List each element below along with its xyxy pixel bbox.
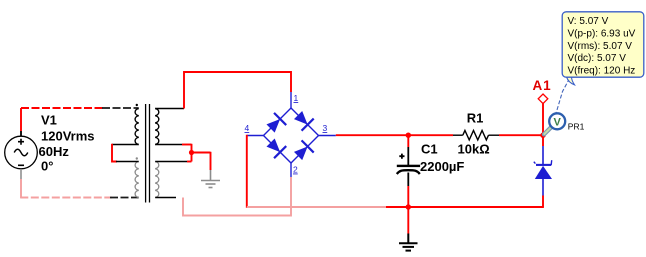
svg-text:V: V (554, 116, 562, 128)
source V1 minus sign (18, 164, 24, 166)
wire zener bottom red (542, 196, 544, 208)
wire V1 top horizontal dashed black to transformer (102, 107, 139, 109)
diode D1 (pin4 to pin1, top-left) (265, 113, 287, 135)
wire center tap vertical (191, 144, 193, 162)
probe PR1 circle (549, 113, 565, 129)
wire bridge pin 4 down (246, 135, 248, 208)
wire V1 bottom vertical pink (20, 179, 22, 198)
svg-text:0°: 0° (41, 159, 53, 174)
node A1 junction (540, 133, 545, 138)
junction C1 bottom (406, 204, 411, 209)
probe diamond A1 (538, 94, 548, 104)
svg-text:C1: C1 (421, 142, 438, 157)
capacitor C1 lead top red (407, 135, 409, 147)
wire secondary top: up, across, down to bridge pin 1 (184, 72, 291, 109)
wire node A1 down red (542, 135, 544, 146)
svg-text:60Hz: 60Hz (39, 144, 70, 159)
callout box tail (567, 77, 575, 85)
transformer T2 polarity dot (136, 157, 138, 159)
transformer T1 pin upper-left-bottom (112, 144, 139, 146)
svg-text:1: 1 (294, 93, 299, 103)
transformer T1 secondary winding (upper right coil) (155, 109, 159, 145)
bridge rectifier: pin 3 stub (319, 135, 336, 137)
transformer T2 pin lower-left-top (116, 161, 139, 163)
capacitor C1 plus sign (399, 154, 404, 159)
transformer T2 pin lower-right-top (155, 161, 187, 163)
transformer T2 secondary winding (lower right coil) (155, 162, 159, 198)
wire V1 bottom horizontal dashed pink (20, 197, 112, 199)
transformer T2 primary winding (lower left coil) (135, 162, 139, 198)
wire R1 to node A1 red (499, 134, 543, 136)
wire V1 top vertical (20, 108, 22, 131)
ground (center tap, gray) (201, 170, 220, 188)
source V1 sine wave (14, 149, 28, 156)
wire V1 top horizontal dashed red (21, 107, 104, 109)
svg-text:V(freq): 120 Hz: V(freq): 120 Hz (568, 66, 636, 77)
transformer T1 pin upper-right-bottom (155, 144, 182, 146)
source V1 pin stub bottom gray (20, 169, 22, 179)
capacitor C1 top plate (397, 165, 420, 167)
svg-text:V: 5.07 V: V: 5.07 V (568, 16, 609, 27)
source V1 pin stub top (20, 131, 22, 137)
svg-text:V(rms): 5.07 V: V(rms): 5.07 V (568, 41, 633, 52)
svg-text:2: 2 (293, 165, 298, 175)
svg-text:4: 4 (245, 123, 250, 133)
transformer T2 pin lower-right-bottom (155, 197, 176, 199)
wire center tap lower red (187, 161, 192, 163)
svg-text:R1: R1 (467, 111, 484, 126)
wire bottom rail red segment (386, 206, 544, 208)
wire center tap ground vertical (210, 152, 212, 170)
wire center tap upper red (182, 144, 192, 146)
svg-text:3: 3 (323, 123, 328, 133)
measurement callout box (562, 12, 644, 77)
zener diode D5 (534, 146, 552, 196)
wire V1 bottom horizontal dashed black to transformer (110, 197, 139, 199)
source V1 plus sign (18, 139, 24, 145)
svg-text:10kΩ: 10kΩ (458, 142, 490, 157)
capacitor C1 lead bottom black (407, 173, 409, 187)
transformer T1 primary winding (upper left coil) (135, 109, 139, 145)
svg-text:120Vrms: 120Vrms (41, 129, 95, 144)
bridge rectifier: pin 1 stub (290, 92, 292, 108)
svg-text:V1: V1 (41, 113, 57, 128)
resistor R1 (453, 131, 499, 140)
svg-text:2200µF: 2200µF (420, 159, 464, 174)
probe PR1 needle (544, 128, 551, 135)
measurement text (568, 16, 636, 77)
capacitor C1 lead bottom red (407, 186, 409, 207)
transformer T1 pin upper-right-top (155, 108, 184, 110)
wire C1 bottom to ground red (407, 207, 409, 234)
bridge rectifier: pin 4 stub (247, 135, 264, 137)
capacitor C1 lead top black (407, 147, 409, 165)
wire node A1 up to probe diamond (542, 104, 544, 136)
diode D3 (pin4 to pin2, bottom-left) (265, 137, 287, 159)
wire bridge pin 2 loop pink (183, 177, 291, 216)
diode D2 (pin1 to pin3, top-right) (292, 109, 314, 131)
svg-text:PR1: PR1 (568, 121, 585, 131)
wire center tap to ground horizontal (192, 152, 211, 154)
svg-text:V(dc): 5.07 V: V(dc): 5.07 V (568, 53, 627, 64)
callout leader line (556, 79, 569, 113)
capacitor C1 curved plate (397, 170, 420, 174)
transformer T1 polarity dot (136, 104, 138, 106)
bridge rectifier diamond (264, 108, 319, 163)
diode D4 (pin2 to pin3, bottom-right) (292, 140, 314, 162)
svg-text:V(p-p): 6.93 uV: V(p-p): 6.93 uV (568, 28, 636, 39)
wire bottom rail pink segment (247, 206, 386, 208)
source V1 circle (5, 136, 38, 169)
junction C1 top (406, 133, 411, 138)
transformer T1 core lines (145, 104, 147, 203)
junction center tap (189, 150, 194, 155)
bridge rectifier: pin 2 stub (290, 163, 292, 177)
ground (bottom, black) (399, 234, 418, 251)
wire primary series link red (112, 144, 117, 162)
wire main output red (bridge pin 3 to R1) (336, 134, 453, 136)
svg-text:A1: A1 (533, 78, 552, 93)
